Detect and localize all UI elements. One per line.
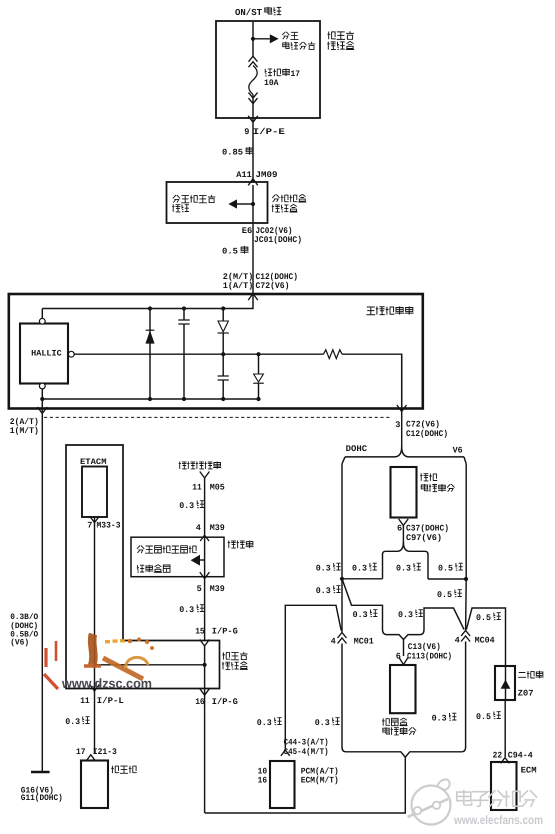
PCM box — [270, 761, 295, 808]
label connector (right of box) — [228, 541, 254, 549]
svg-text:M33-3: M33-3 — [97, 521, 121, 531]
svg-text:0.3: 0.3 — [398, 610, 413, 620]
svg-text:0.3: 0.3 — [353, 610, 368, 620]
node mid rail d2 — [221, 352, 225, 356]
label see power distribution — [282, 32, 298, 40]
svg-text:M39: M39 — [210, 523, 225, 533]
wire into engine room box — [252, 185, 254, 204]
svg-text:10A: 10A — [264, 78, 279, 88]
cruise splitter fanout — [383, 542, 429, 555]
diode Z07 box — [495, 666, 515, 700]
svg-text:C94-4: C94-4 — [508, 751, 533, 761]
connector chevron below data link label — [200, 472, 210, 479]
svg-text:15: 15 — [195, 627, 205, 637]
wire cruise left branch to DOHC node — [342, 554, 383, 579]
svg-text:JC01(DOHC): JC01(DOHC) — [254, 235, 302, 245]
svg-text:0.3: 0.3 — [179, 501, 194, 511]
svg-text:0.3: 0.3 — [315, 718, 330, 728]
svg-text:C12(DOHC): C12(DOHC) — [406, 429, 448, 439]
svg-text:ON/ST: ON/ST — [235, 7, 262, 18]
node mid rail d3 — [256, 352, 260, 356]
connector chevron I/P-G at box top — [200, 640, 210, 647]
fuse F17 wavy element — [249, 66, 257, 95]
wire I/P-G through junction box and down to bottom link — [204, 646, 206, 813]
connector chevron at cluster — [86, 755, 95, 761]
svg-text:C72(V6): C72(V6) — [406, 420, 440, 430]
node power junction — [251, 37, 255, 41]
svg-text:5: 5 — [197, 584, 202, 594]
diode D3 column wire — [258, 354, 260, 399]
node I/P-G internal junction — [203, 663, 207, 667]
svg-text:JM09: JM09 — [256, 170, 278, 180]
junction box (passenger) top box — [216, 21, 320, 118]
wire M05 to M39 — [204, 478, 206, 535]
wire DOHC main — [341, 464, 343, 632]
wire fuse to box bottom — [252, 95, 254, 123]
wire I/P-E segment — [252, 122, 254, 182]
svg-text:0.5: 0.5 — [476, 613, 491, 623]
svg-text:0.3: 0.3 — [179, 605, 194, 615]
wire cruise pin to splitter — [402, 525, 404, 544]
label see passenger junction wiring — [173, 195, 216, 203]
node bottom rail hall — [40, 397, 44, 401]
svg-text:16: 16 — [258, 776, 268, 786]
svg-text:M05: M05 — [210, 483, 225, 493]
svg-text:3: 3 — [395, 420, 400, 430]
arrow see passenger junction wiring — [237, 203, 253, 205]
node top rail d1 — [148, 306, 152, 310]
wire junction to fuse — [252, 39, 254, 56]
label instrument cluster — [111, 766, 137, 774]
node top rail c1 — [182, 306, 186, 310]
pin circle hall output — [68, 351, 74, 357]
svg-text:7: 7 — [87, 521, 92, 531]
hall IC box — [20, 324, 68, 384]
svg-text:1(A/T): 1(A/T) — [223, 281, 254, 291]
svg-text:0.3: 0.3 — [432, 714, 447, 724]
svg-text:11: 11 — [192, 483, 202, 493]
watermark elecfans hanzi — [457, 790, 537, 807]
connector chevron below ETACM — [90, 516, 100, 523]
svg-text:G11(DOHC): G11(DOHC) — [21, 793, 63, 803]
label fuse 17 10A — [265, 69, 290, 77]
node bottom rail d3 — [256, 397, 260, 401]
svg-text:C113(DOHC): C113(DOHC) — [407, 651, 452, 661]
svg-text:MC01: MC01 — [354, 637, 374, 647]
connector chevron at top box bottom edge — [248, 116, 258, 123]
connector MC01 double chevron — [338, 633, 347, 644]
svg-text:0.5: 0.5 — [437, 590, 452, 600]
wire from top box edge to junction — [252, 22, 254, 39]
wire left exit to ground — [41, 414, 43, 773]
watermark elecfans logo — [408, 779, 451, 824]
ETACM module box — [82, 467, 107, 518]
label see auto headlamp leveling device — [137, 546, 197, 554]
resistor R1 — [324, 350, 343, 359]
svg-text:6: 6 — [397, 524, 402, 534]
steering merge bar and stem — [387, 635, 420, 656]
svg-text:Z07: Z07 — [518, 689, 534, 699]
svg-text:0.3: 0.3 — [396, 564, 411, 574]
wire engine room box to sensor — [252, 204, 254, 293]
wire V6 main — [465, 464, 468, 631]
wire through headlamp box — [204, 537, 206, 578]
diode D1 column wire — [149, 309, 151, 400]
wire V6 main below MC04 — [462, 642, 466, 752]
svg-text:M39: M39 — [210, 584, 225, 594]
node bottom rail d2 — [221, 397, 225, 401]
svg-text:HALLIC: HALLIC — [31, 349, 62, 358]
svg-text:0.3: 0.3 — [316, 564, 331, 574]
node V6 junction — [464, 577, 468, 581]
connector chevron I/P-L at box bottom — [90, 685, 100, 692]
engine room junction box — [167, 182, 268, 223]
connector chevron below cruise box — [399, 519, 409, 526]
dashed option line — [44, 416, 390, 418]
svg-text:C37(DOHC): C37(DOHC) — [406, 524, 449, 534]
node bottom rail d1 — [148, 397, 152, 401]
wire cruise right branch to V6 node — [428, 554, 466, 579]
connector chevron I/P-G at box bottom — [200, 689, 210, 696]
svg-text:ECM: ECM — [521, 766, 537, 776]
connector MC04 double chevron — [461, 631, 470, 642]
wire steering branch from DOHC node — [342, 579, 387, 635]
wire DOHC main below MC01 — [342, 644, 346, 752]
wire internal link to ETACM wire — [95, 664, 205, 666]
svg-text:0.3B/O: 0.3B/O — [10, 613, 38, 622]
svg-text:I/P-L: I/P-L — [97, 696, 124, 706]
svg-text:I21-3: I21-3 — [93, 747, 117, 757]
diode D2 (down, outline) — [218, 321, 228, 332]
pin circle hall bottom — [39, 383, 45, 389]
capacitor C1 column wire — [183, 309, 185, 400]
diode D2 column wire — [222, 309, 224, 400]
svg-text:C72(V6): C72(V6) — [256, 281, 290, 291]
wire M39 to I/P-G — [204, 579, 206, 641]
sensor right exit wire + arrow — [401, 354, 403, 411]
diode D1 (up, filled) — [146, 332, 154, 344]
connector chevrons below fuse 17 — [249, 93, 258, 104]
label vehicle speed sensor — [366, 306, 413, 314]
svg-text:4: 4 — [196, 523, 201, 533]
wire sensor entry down to top rail then left — [42, 294, 253, 309]
steering wheel control unit box — [390, 665, 416, 713]
I/P junction box (L-shaped) — [66, 445, 220, 689]
connector fork 6 C13/C113 at steering unit box — [399, 658, 408, 665]
mid rail resistor to right corner, down to exit — [342, 354, 402, 407]
wire MC01 left branch to PCM drop — [285, 605, 341, 748]
node bottom rail c1 — [182, 397, 186, 401]
svg-text:0.5: 0.5 — [222, 247, 238, 257]
svg-text:C45-4(M/T): C45-4(M/T) — [284, 747, 329, 757]
svg-text:I/P-G: I/P-G — [212, 697, 238, 707]
capacitor C1 plates — [178, 320, 189, 324]
svg-text:17: 17 — [291, 69, 301, 79]
svg-text:9: 9 — [244, 127, 249, 137]
wire right exit to split — [401, 412, 403, 450]
node DOHC junction — [340, 577, 344, 581]
svg-text:4: 4 — [331, 637, 336, 647]
connector chevron at PCM — [281, 750, 290, 756]
svg-text:(DOHC): (DOHC) — [10, 622, 38, 631]
svg-text:C44-3(A/T): C44-3(A/T) — [284, 738, 329, 748]
svg-text:1(M/T): 1(M/T) — [10, 426, 39, 436]
svg-text:0.5: 0.5 — [438, 564, 453, 574]
label diode Z07 — [518, 671, 544, 679]
split DOHC/V6 fanout — [345, 447, 464, 457]
svg-text:0.3: 0.3 — [257, 718, 272, 728]
connector chevron below headlamp box — [200, 572, 210, 579]
svg-text:22: 22 — [493, 751, 503, 761]
node top rail d2 — [221, 306, 225, 310]
instrument cluster box — [81, 761, 108, 809]
svg-text:I/P-E: I/P-E — [253, 127, 285, 137]
svg-text:11: 11 — [80, 696, 90, 706]
svg-text:0.85: 0.85 — [222, 148, 243, 158]
diode D3 (down, outline) — [254, 374, 264, 382]
svg-text:ECM(M/T): ECM(M/T) — [301, 776, 339, 786]
arrow see power distribution — [253, 38, 270, 40]
headlamp leveling reference box — [131, 537, 224, 577]
connector chevron at ECM — [501, 758, 510, 764]
label steering wheel control unit — [382, 718, 408, 726]
bottom merge bar DOHC+V6 — [346, 752, 462, 757]
mid rail from hall output to resistor — [74, 353, 323, 355]
svg-text:0.3: 0.3 — [316, 586, 331, 596]
ground G16/G11 — [31, 771, 50, 774]
pin circle hall top — [41, 309, 43, 319]
wire ETACM to I/P-L exit — [94, 517, 96, 754]
svg-text:V6: V6 — [453, 446, 463, 456]
svg-text:16: 16 — [195, 697, 205, 707]
bottom link stem and return to I/P-G 16 — [205, 757, 405, 813]
svg-text:(V6): (V6) — [10, 639, 29, 648]
svg-text:I/P-G: I/P-G — [212, 627, 238, 637]
svg-text:17: 17 — [76, 747, 86, 757]
sensor left exit wire + arrow — [41, 399, 43, 412]
svg-text:A11: A11 — [236, 170, 252, 180]
svg-text:0.5: 0.5 — [476, 712, 491, 722]
svg-text:0.3: 0.3 — [352, 564, 367, 574]
svg-text:MC04: MC04 — [475, 636, 495, 646]
svg-text:0.3: 0.3 — [65, 717, 80, 727]
connector chevron M39 at headlamp box top — [200, 535, 209, 541]
wire Z07 to ECM — [504, 700, 506, 757]
vehicle speed sensor box — [9, 294, 423, 409]
bottom rail — [42, 398, 258, 400]
label junction box (right of top box) — [327, 31, 354, 39]
svg-text:6: 6 — [396, 651, 401, 661]
watermark dzsc orange logo — [44, 634, 154, 689]
arrow to headlamp device — [200, 559, 205, 561]
connector chevrons above fuse 17 — [249, 56, 258, 67]
label data link connector — [179, 462, 222, 469]
svg-text:www.dzsc.com: www.dzsc.com — [61, 676, 152, 691]
wire MC04 right branch to diode Z07 — [466, 608, 505, 667]
svg-text:www.elecfans.com: www.elecfans.com — [453, 813, 543, 827]
svg-text:DOHC: DOHC — [346, 444, 368, 454]
connector chevron at speed sensor box top — [248, 294, 258, 301]
connector chevron at engine room box top — [248, 179, 258, 186]
label engine room junction box — [272, 194, 306, 202]
label I/P junction box (wide part) — [222, 652, 247, 660]
node engine room junction — [251, 202, 255, 206]
svg-text:C97(V6): C97(V6) — [406, 533, 442, 543]
svg-text:4: 4 — [455, 636, 460, 646]
ECM box (right) — [491, 762, 517, 810]
svg-text:E6: E6 — [242, 226, 253, 236]
capacitor C2 plates — [218, 376, 229, 380]
cruise control unit box — [391, 467, 417, 518]
label cruise control unit — [420, 473, 437, 481]
diode Z07 element — [505, 666, 507, 700]
